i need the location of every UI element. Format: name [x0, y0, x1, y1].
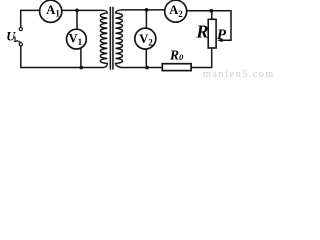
- transformer primary coil: [100, 10, 107, 67]
- junction dot V1 bottom: [79, 66, 83, 70]
- wire A2 to top-right corner and down to wiper: [187, 11, 231, 41]
- wire V2 bottom lead: [145, 50, 147, 68]
- wire V1 bottom lead: [80, 48, 82, 68]
- wire R top lead: [211, 11, 213, 19]
- svg-text:1: 1: [13, 35, 17, 44]
- resistor R0 body: [162, 64, 191, 71]
- svg-text:R: R: [195, 22, 208, 42]
- ammeter A1: [40, 0, 62, 22]
- wire V1 top lead: [76, 10, 78, 29]
- wiper arrow P: [217, 38, 222, 42]
- wire secondary bottom: [122, 67, 163, 69]
- transformer secondary coil: [116, 10, 123, 68]
- terminal top input: [19, 27, 22, 30]
- rheostat R body: [208, 19, 216, 48]
- junction dot V1 top: [75, 9, 79, 13]
- junction dot V2 bottom: [145, 66, 149, 70]
- svg-text:R0: R0: [169, 47, 184, 62]
- junction dot R top: [209, 9, 213, 13]
- wire top-left horizontal: [20, 9, 40, 11]
- svg-text:P: P: [217, 27, 227, 43]
- wire R bottom lead and bottom-right corner: [191, 48, 212, 68]
- svg-text:manfen5.com: manfen5.com: [203, 69, 274, 78]
- transformer core right bar: [112, 7, 114, 70]
- wire bottom-left horizontal: [20, 67, 103, 69]
- wire V2 top lead: [145, 10, 147, 28]
- wire secondary top: [122, 9, 165, 11]
- transformer core left bar: [110, 7, 112, 70]
- voltmeter V1: [67, 29, 87, 49]
- ammeter A2: [165, 0, 187, 22]
- terminal bottom input: [19, 43, 22, 46]
- voltmeter V2: [135, 28, 156, 49]
- wire left vertical upper: [20, 10, 22, 27]
- wire A1 to transformer primary: [62, 9, 104, 11]
- junction dot V2 top: [145, 8, 149, 12]
- wire left vertical lower: [20, 46, 22, 68]
